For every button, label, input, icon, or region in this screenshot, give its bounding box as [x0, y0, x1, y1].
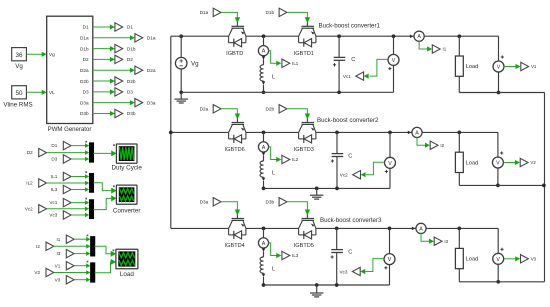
- svg-text:Vc1: Vc1: [343, 74, 351, 79]
- transistor IGBTD5 collector stroke: [299, 221, 303, 229]
- svg-text:IGBTD3: IGBTD3: [294, 147, 314, 153]
- svg-text:I2: I2: [36, 244, 40, 249]
- wire IL2 to mux: [47, 182, 89, 184]
- DC voltage source Vg: [180, 36, 182, 57]
- goto tag D3b: [115, 109, 123, 117]
- wire load loop bottom converter1: [459, 92, 544, 94]
- svg-text:D2: D2: [127, 57, 133, 62]
- svg-text:D1a: D1a: [80, 36, 89, 41]
- transistor IGBTD emitter stroke: [243, 28, 246, 36]
- svg-text:Load: Load: [120, 271, 135, 278]
- from tag IL2: [39, 179, 47, 187]
- voltage sensor V (input) converter2: [389, 132, 391, 157]
- wire PWM output D3b: [93, 112, 114, 114]
- svg-text:Duty Cycle: Duty Cycle: [111, 165, 142, 172]
- wire PWM output D2b: [93, 80, 114, 82]
- wire input V sensor to goto Vc3: [366, 259, 384, 272]
- wire D3 to mux: [71, 158, 88, 160]
- from tag I3: [66, 249, 74, 257]
- svg-text:V2: V2: [34, 270, 40, 275]
- wire top rail converter3: [171, 227, 229, 229]
- svg-text:IGBTD: IGBTD: [226, 51, 243, 57]
- svg-text:D1a: D1a: [147, 36, 156, 41]
- goto tag I1: [432, 45, 440, 53]
- node load top junction converter2: [457, 131, 461, 135]
- node rail junction above input V sensor converter3: [388, 227, 392, 231]
- transistor IGBTD4 gate lead: [236, 214, 238, 218]
- svg-text:V: V: [496, 161, 500, 167]
- polarity + of input V sensor converter3: [384, 267, 387, 269]
- from tag D1b: [279, 8, 287, 16]
- wire load A sensor to goto I2: [417, 138, 429, 146]
- svg-text:D2b: D2b: [265, 107, 274, 112]
- svg-text:V: V: [497, 65, 501, 71]
- wire D2a to IGBTD6 gate: [221, 109, 237, 115]
- transistor IGBTD1 gate lead: [306, 22, 308, 26]
- svg-text:50: 50: [15, 90, 23, 97]
- svg-text:Vc1: Vc1: [49, 200, 57, 205]
- svg-text:Vg: Vg: [15, 63, 23, 70]
- current sensor A1 (middle branch): [263, 36, 265, 46]
- from tag D3a: [213, 198, 221, 206]
- svg-text:D2: D2: [27, 150, 33, 155]
- mux Mux4 (load currents): [90, 236, 95, 256]
- svg-text:Vline RMS: Vline RMS: [3, 102, 32, 109]
- inductor L converter3: [263, 252, 265, 257]
- svg-text:I1: I1: [56, 237, 60, 242]
- svg-text:Vc3: Vc3: [339, 269, 347, 274]
- goto tag D2: [115, 55, 123, 63]
- wire load V sensor to goto V1: [504, 66, 519, 68]
- wire PWM output D3: [93, 91, 114, 93]
- wire I1 to mux: [74, 238, 89, 240]
- svg-text:IL2: IL2: [26, 181, 33, 186]
- diode of IGBTD4 (cathode bar and triangle): [233, 231, 235, 239]
- current sensor A3 (middle branch): [263, 228, 265, 238]
- from tag I1: [66, 235, 74, 243]
- diode of IGBTD3 (cathode bar and triangle): [303, 135, 305, 143]
- polarity + of load V sensor converter2: [500, 152, 503, 154]
- voltage sensor V (input) converter1: [393, 36, 395, 55]
- svg-text:Load: Load: [466, 160, 478, 166]
- node load top junction converter1: [457, 34, 461, 38]
- svg-text:V: V: [496, 257, 500, 263]
- wire Mux4 to Load scope: [95, 246, 115, 254]
- goto tag D3a: [135, 98, 143, 106]
- from tag IL3: [63, 185, 71, 193]
- from tag D2a: [213, 105, 221, 113]
- svg-text:A: A: [419, 226, 423, 232]
- node neutral bus junction converter2: [542, 184, 546, 188]
- wire load loop bottom converter2: [459, 184, 544, 186]
- svg-text:Buck-boost converter1: Buck-boost converter1: [319, 22, 381, 29]
- svg-text:Buck-boost converter2: Buck-boost converter2: [317, 117, 379, 124]
- transistor IGBTD1 anti-parallel diode loop: [298, 36, 300, 43]
- transistor IGBTD6 gate lead: [236, 118, 238, 122]
- node load bottom junction converter2: [496, 184, 500, 188]
- svg-text:IGBTD5: IGBTD5: [294, 243, 314, 249]
- wire load A sensor to goto I3: [421, 234, 433, 242]
- svg-text:I1: I1: [443, 47, 447, 52]
- svg-text:D1b: D1b: [80, 46, 89, 51]
- svg-text:VL: VL: [49, 90, 55, 95]
- svg-text:Vc2: Vc2: [340, 173, 348, 178]
- from tag D3b: [279, 198, 287, 206]
- svg-text:C: C: [348, 153, 352, 159]
- svg-text:I3: I3: [444, 239, 448, 244]
- transistor IGBTD6 gate bars: [232, 122, 245, 124]
- transistor IGBTD gate bars: [232, 25, 245, 27]
- svg-text:Load: Load: [466, 64, 478, 70]
- goto tag D1a: [135, 34, 143, 42]
- svg-text:D3b: D3b: [80, 111, 89, 116]
- current sensor A (load) converter3: [412, 227, 415, 231]
- transistor IGBTD5 anti-parallel diode loop: [298, 228, 300, 235]
- svg-text:D2a: D2a: [147, 68, 156, 73]
- constant block 36 (Vg source value): [12, 48, 27, 61]
- transistor IGBTD4 anti-parallel diode loop: [228, 228, 230, 235]
- svg-text:IL2: IL2: [292, 157, 299, 162]
- from tag Vc3: [63, 211, 71, 219]
- wire load V sensor to goto V2: [504, 162, 519, 164]
- node load bottom junction converter1: [497, 91, 501, 95]
- svg-text:D2a: D2a: [200, 107, 209, 112]
- svg-text:C: C: [348, 249, 352, 255]
- mux Mux3 (capacitor voltages): [89, 200, 94, 219]
- goto tag V2: [520, 158, 528, 166]
- svg-text:A: A: [262, 241, 266, 247]
- resistor Load converter2: [458, 132, 460, 152]
- node Vg bottom junction: [179, 90, 183, 94]
- svg-text:D3: D3: [127, 90, 133, 95]
- goto tag D2a: [135, 66, 143, 74]
- wire A1 output to goto IL1: [269, 51, 277, 64]
- wire Mux2 to Converter scope: [93, 183, 115, 191]
- svg-text:D3: D3: [51, 157, 57, 162]
- wire D2 to mux: [47, 152, 89, 154]
- polarity + of load V sensor converter1: [501, 56, 504, 58]
- wire load loop bottom converter3: [459, 281, 544, 283]
- wire I3 to mux: [74, 253, 89, 255]
- wire input loop bottom converter2: [264, 187, 391, 189]
- transistor IGBTD3 gate lead: [306, 118, 308, 122]
- goto tag Vc1 (left pointing): [356, 72, 364, 80]
- from tag D3: [63, 155, 71, 163]
- transistor IGBTD3 collector stroke: [299, 125, 303, 133]
- svg-text:C: C: [351, 57, 355, 63]
- svg-text:Converter: Converter: [113, 208, 141, 215]
- svg-text:D3b: D3b: [127, 111, 136, 116]
- svg-text:PWM Generator: PWM Generator: [48, 127, 92, 133]
- from tag Vc2: [39, 205, 47, 213]
- svg-text:D1: D1: [127, 25, 133, 30]
- goto tag I3: [434, 237, 442, 245]
- wire A2 output to goto IL2: [269, 147, 277, 160]
- transistor IGBTD6 emitter stroke: [243, 125, 246, 133]
- goto tag IL3: [282, 251, 290, 259]
- from tag Vc1: [63, 198, 71, 206]
- from tag D2b: [279, 105, 287, 113]
- wire I2 to mux: [54, 245, 90, 247]
- wire D3b to IGBTD5 gate: [287, 202, 308, 211]
- inductor L converter1: [263, 60, 265, 65]
- diode of IGBTD1 (cathode bar and triangle): [303, 39, 305, 47]
- svg-text:L: L: [272, 171, 275, 177]
- voltage sensor V (load) converter1: [498, 36, 500, 61]
- ground converter3: [315, 283, 319, 287]
- scope Load: [116, 249, 138, 269]
- wire IL3 to mux: [71, 189, 88, 191]
- node rail junction above input V sensor converter2: [388, 131, 392, 135]
- current sensor A (load) converter1: [410, 34, 413, 38]
- polarity + of capacitor C converter1: [333, 64, 336, 66]
- from tag IL1: [63, 172, 71, 180]
- ground converter2: [315, 187, 319, 191]
- goto tag V3: [521, 255, 529, 263]
- wire input loop bottom converter1: [181, 91, 393, 93]
- from tag I2: [46, 242, 54, 250]
- transistor IGBTD gate lead: [236, 22, 238, 26]
- svg-text:V3: V3: [55, 277, 61, 282]
- goto tag V1: [521, 62, 529, 70]
- svg-text:D3a: D3a: [147, 100, 156, 105]
- wire Vc2 to mux: [47, 208, 89, 210]
- wire Mux3 to Converter scope: [93, 198, 115, 209]
- transistor IGBTD5 emitter arrow: [311, 224, 315, 227]
- mux Mux1 (duty cycles): [89, 143, 94, 163]
- goto tag IL1: [282, 59, 290, 67]
- svg-text:I3: I3: [56, 251, 60, 256]
- node inductor bottom junction converter1: [262, 90, 266, 94]
- wire input V sensor to goto Vc2: [366, 162, 384, 174]
- svg-text:IGBTD4: IGBTD4: [225, 243, 245, 249]
- transistor IGBTD4 emitter stroke: [243, 221, 246, 229]
- wire PWM output D2a: [93, 69, 134, 71]
- transistor IGBTD5 emitter stroke: [313, 221, 316, 229]
- goto tag IL2: [282, 155, 290, 163]
- svg-text:D2b: D2b: [80, 79, 89, 84]
- wire load V sensor to goto V3: [504, 258, 519, 260]
- svg-text:A: A: [262, 145, 266, 151]
- wire PWM output D1: [93, 26, 114, 28]
- from tag D2: [39, 148, 47, 156]
- transistor IGBTD4 gate bars: [232, 218, 245, 220]
- transistor IGBTD emitter arrow: [241, 31, 245, 34]
- svg-text:A: A: [415, 130, 419, 136]
- wire IL1 to mux: [71, 176, 88, 178]
- svg-text:D3b: D3b: [265, 200, 274, 205]
- svg-text:L: L: [272, 267, 275, 273]
- wire constant-50 to PWM Generator VL input: [26, 91, 45, 93]
- wire D3a to IGBTD4 gate: [221, 202, 237, 211]
- transistor IGBTD collector stroke: [229, 28, 233, 36]
- svg-text:IL3: IL3: [292, 253, 299, 258]
- node inductor bottom junction converter3: [262, 283, 266, 287]
- goto tag I2: [430, 141, 438, 149]
- transistor IGBTD5 gate bars: [302, 218, 315, 220]
- mux Mux2 (inductor currents): [89, 173, 94, 192]
- svg-text:A: A: [417, 34, 421, 40]
- constant block 50 (Vline RMS): [12, 86, 27, 99]
- node rail-middle junction converter1: [262, 34, 266, 38]
- svg-text:D3: D3: [83, 90, 89, 95]
- goto tag D3: [115, 88, 123, 96]
- transistor IGBTD5 gate lead: [306, 214, 308, 218]
- resistor Load converter1: [458, 36, 460, 56]
- transistor IGBTD anti-parallel diode loop: [228, 36, 230, 43]
- svg-text:A: A: [262, 49, 266, 55]
- wire PWM output D3a: [93, 102, 134, 104]
- svg-text:Vc2: Vc2: [25, 206, 33, 211]
- goto tag D2b: [115, 77, 123, 85]
- mux Mux5 (load voltages): [90, 263, 95, 283]
- from tag V1: [66, 262, 74, 270]
- wire PWM output D1b: [93, 48, 114, 50]
- from tag D1: [63, 141, 71, 149]
- svg-text:L: L: [272, 74, 275, 80]
- voltage sensor V (load) converter2: [497, 132, 499, 157]
- wire PWM output D1a: [93, 37, 134, 39]
- resistor Load converter3: [458, 228, 460, 248]
- node rail-middle junction converter2: [262, 131, 266, 135]
- goto tag Vc2 (left pointing): [353, 171, 361, 179]
- ground under Vg: [180, 92, 182, 99]
- wire D1b to IGBTD1 gate: [287, 12, 308, 18]
- svg-text:D2b: D2b: [127, 79, 136, 84]
- wire D1a to IGBTD gate: [221, 12, 237, 18]
- polarity + of capacitor C converter3: [331, 256, 334, 258]
- wire V3 to mux: [74, 279, 89, 281]
- transistor IGBTD4 collector stroke: [229, 221, 233, 229]
- node rail junction above input V sensor converter1: [392, 34, 396, 38]
- svg-text:V1: V1: [55, 263, 61, 268]
- inductor L converter2: [263, 156, 265, 161]
- node rail-middle junction converter3: [262, 227, 266, 231]
- transistor IGBTD1 emitter stroke: [313, 28, 316, 36]
- wire load A sensor to goto I1: [419, 41, 431, 49]
- transistor IGBTD6 anti-parallel diode loop: [228, 132, 230, 139]
- svg-text:Vc3: Vc3: [49, 213, 57, 218]
- capacitor C converter3: [335, 227, 339, 231]
- wire top rail converter1: [171, 35, 229, 37]
- transistor IGBTD6 emitter arrow: [241, 128, 245, 131]
- wire Mux1 to Duty Cycle scope: [93, 152, 115, 154]
- diode of IGBTD (cathode bar and triangle): [233, 39, 235, 47]
- svg-text:IL3: IL3: [51, 187, 58, 192]
- from tag D1a: [213, 8, 221, 16]
- scope Duty Cycle: [116, 144, 137, 163]
- svg-text:D3a: D3a: [200, 200, 209, 205]
- transistor IGBTD1 collector stroke: [299, 28, 303, 36]
- transistor IGBTD1 gate bars: [302, 25, 315, 27]
- wire input V sensor to goto Vc1: [370, 59, 388, 76]
- wire D2b to IGBTD3 gate: [287, 109, 308, 115]
- from tag V2: [46, 268, 54, 276]
- svg-text:V1: V1: [531, 64, 537, 69]
- svg-text:V: V: [388, 257, 392, 263]
- transistor IGBTD4 emitter arrow: [241, 224, 245, 227]
- svg-text:V: V: [388, 161, 392, 167]
- wire constant-36 to PWM Generator Vg input: [26, 53, 45, 55]
- goto tag Vc3 (left pointing): [352, 267, 360, 275]
- transistor IGBTD1 emitter arrow: [311, 31, 315, 34]
- wire D1 to mux: [71, 145, 88, 147]
- svg-text:D3a: D3a: [80, 100, 89, 105]
- wire top rail converter2: [171, 131, 229, 133]
- capacitor C converter1: [337, 34, 341, 38]
- svg-text:D1a: D1a: [200, 10, 209, 15]
- wire right neutral bus: [544, 93, 546, 282]
- wire Vc1 to mux: [71, 202, 88, 204]
- block PWM Generator: [47, 16, 93, 123]
- svg-text:Vg: Vg: [191, 61, 199, 68]
- svg-text:D2a: D2a: [80, 68, 89, 73]
- wire V2 to mux: [54, 272, 90, 274]
- svg-text:Buck-boost converter3: Buck-boost converter3: [320, 217, 382, 224]
- svg-text:V3: V3: [531, 257, 537, 262]
- left DC bus wire: [170, 36, 172, 228]
- wire PWM output D2: [93, 58, 114, 60]
- polarity + of load V sensor converter3: [500, 248, 503, 250]
- transistor IGBTD3 emitter arrow: [311, 128, 315, 131]
- svg-text:Vg: Vg: [49, 52, 55, 57]
- svg-text:IL1: IL1: [51, 174, 58, 179]
- wire Mux5 to Load scope: [95, 262, 115, 273]
- wire V1 to mux: [74, 265, 89, 267]
- node bus junction converter2 rail: [169, 131, 173, 135]
- svg-text:V2: V2: [530, 160, 536, 165]
- svg-text:IGBTD6: IGBTD6: [225, 147, 245, 153]
- goto tag D1: [115, 23, 123, 31]
- capacitor C converter2: [335, 131, 339, 135]
- svg-text:V: V: [392, 58, 396, 64]
- diode of IGBTD6 (cathode bar and triangle): [233, 135, 235, 143]
- polarity + of input V sensor converter1: [388, 68, 391, 70]
- current sensor A (load) converter2: [408, 131, 411, 135]
- svg-text:IGBTD1: IGBTD1: [294, 51, 314, 57]
- voltage sensor V (input) converter3: [389, 228, 391, 254]
- wire Vc3 to mux: [71, 214, 88, 216]
- polarity + of capacitor C converter2: [331, 160, 334, 162]
- polarity + of input V sensor converter2: [385, 171, 388, 173]
- node load top junction converter3: [457, 227, 461, 231]
- goto tag D1b: [115, 44, 123, 52]
- svg-text:D1: D1: [51, 143, 57, 148]
- transistor IGBTD3 emitter stroke: [313, 125, 316, 133]
- node inductor bottom junction converter2: [262, 187, 266, 191]
- svg-text:D1b: D1b: [127, 46, 136, 51]
- svg-text:D1: D1: [83, 25, 89, 30]
- svg-text:D2: D2: [83, 57, 89, 62]
- svg-text:IL1: IL1: [292, 61, 299, 66]
- wire input loop bottom converter3: [264, 284, 390, 286]
- voltage sensor V (load) converter3: [497, 228, 499, 253]
- node Vg top junction: [179, 34, 183, 38]
- wire A3 output to goto IL3: [269, 243, 277, 256]
- transistor IGBTD3 anti-parallel diode loop: [298, 132, 300, 139]
- diode of IGBTD5 (cathode bar and triangle): [303, 231, 305, 239]
- from tag V3: [66, 276, 74, 284]
- node load bottom junction converter3: [496, 280, 500, 284]
- svg-text:Load: Load: [466, 257, 478, 263]
- scope Converter: [116, 185, 137, 204]
- current sensor A2 (middle branch): [263, 132, 265, 142]
- svg-text:36: 36: [15, 52, 23, 59]
- transistor IGBTD3 gate bars: [302, 122, 315, 124]
- svg-text:D1b: D1b: [265, 10, 274, 15]
- transistor IGBTD6 collector stroke: [229, 125, 233, 133]
- svg-text:I2: I2: [440, 143, 444, 148]
